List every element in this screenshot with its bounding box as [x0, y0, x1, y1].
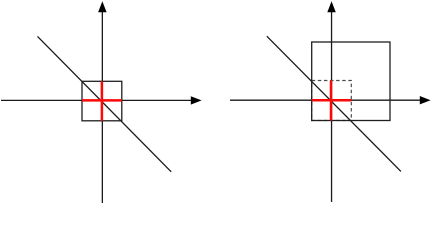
right diagram: red cross vertical	[330, 81, 333, 121]
right diagram: dashed square (old window)	[312, 81, 352, 121]
left diagram: x-axis	[1, 96, 202, 104]
right diagram: red cross horizontal	[312, 99, 352, 102]
right diagram: diagonal line	[267, 36, 401, 171]
right diagram: y-axis	[327, 1, 336, 202]
left diagram: diagonal line	[38, 36, 172, 171]
left diagram: red cross vertical	[101, 81, 104, 121]
right diagram: large solid square (expanded window)	[312, 42, 390, 121]
left diagram: y-axis	[98, 1, 107, 203]
right diagram: x-axis	[230, 96, 431, 104]
left diagram: red cross horizontal	[82, 99, 122, 102]
left diagram: square	[82, 81, 122, 121]
